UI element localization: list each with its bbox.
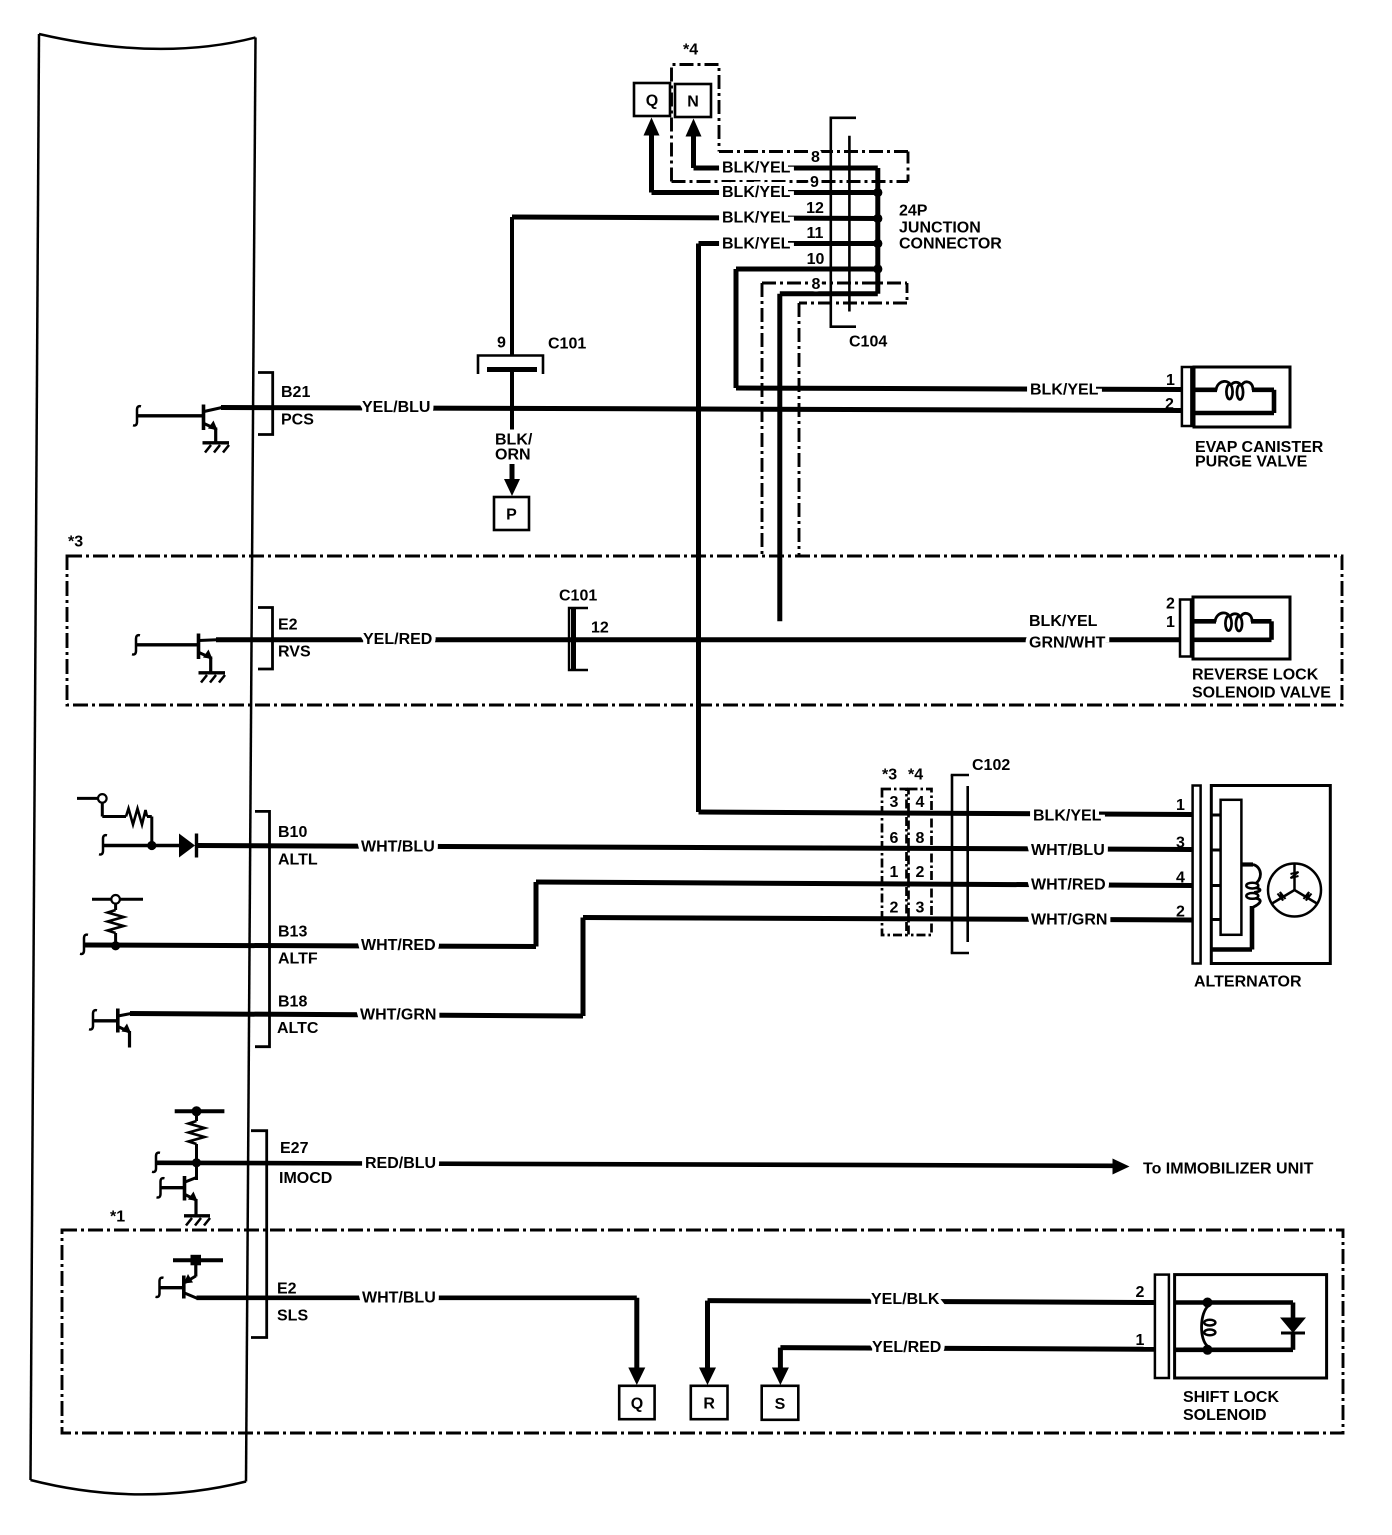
label B10 / ALTL <box>278 824 318 868</box>
connector bar at reverse lock valve <box>1180 600 1191 657</box>
wire BLK/YEL C104 pin 8 <box>694 166 878 171</box>
svg-text:E2: E2 <box>278 617 298 634</box>
svg-text:GRN/WHT: GRN/WHT <box>1029 634 1106 651</box>
svg-text:SOLENOID VALVE: SOLENOID VALVE <box>1192 685 1331 702</box>
svg-text:2: 2 <box>890 899 899 916</box>
pin bracket E27/E2 <box>251 1131 267 1338</box>
svg-text:WHT/BLU: WHT/BLU <box>361 839 435 856</box>
connector box P <box>494 497 529 530</box>
svg-text:Q: Q <box>631 1396 643 1413</box>
transistor Q1 (PCS driver) <box>133 405 222 443</box>
svg-text:24P: 24P <box>899 203 928 220</box>
label B21 / PCS <box>281 384 314 428</box>
svg-text:*1: *1 <box>110 1209 125 1226</box>
diode D1 (ALTL) <box>179 834 197 858</box>
connector C104 inner bar <box>848 136 851 312</box>
EVAP canister purge valve box <box>1194 367 1290 427</box>
svg-text:YEL/BLU: YEL/BLU <box>362 399 430 416</box>
svg-text:2: 2 <box>916 864 925 881</box>
junction dot C104 pin 11 <box>873 239 882 248</box>
label E27 / IMOCD <box>279 1140 332 1187</box>
svg-text:SHIFT LOCK: SHIFT LOCK <box>1183 1389 1279 1406</box>
wire bus at C104 <box>780 168 878 294</box>
label 24P JUNCTION CONNECTOR <box>899 203 1002 253</box>
label BLK/ORN <box>495 432 533 464</box>
wire YEL/BLK to R and shift lock pin 2 <box>699 1301 1155 1385</box>
connector bar at shift lock solenoid <box>1155 1275 1169 1378</box>
svg-text:3: 3 <box>916 899 925 916</box>
svg-text:Q: Q <box>646 92 658 109</box>
svg-text:*4: *4 <box>683 42 698 59</box>
diode D2 (shift lock flyback) <box>1280 1303 1306 1350</box>
svg-text:1: 1 <box>1136 1332 1145 1349</box>
pin bracket B10/B13/B18 <box>255 811 270 1046</box>
wire arrow to Q <box>644 118 660 193</box>
wire dash-dot C104 pin 9 (option) <box>672 180 909 183</box>
ground (RVS emitter) <box>199 673 226 683</box>
svg-text:SLS: SLS <box>277 1307 308 1324</box>
svg-text:YEL/BLK: YEL/BLK <box>871 1291 940 1308</box>
label REVERSE LOCK SOLENOID VALVE <box>1192 667 1331 702</box>
svg-text:WHT/BLU: WHT/BLU <box>362 1289 436 1306</box>
wire WHT/RED B13 to alternator pin 4 <box>85 882 1192 947</box>
ground (IMOCD emitter) <box>184 1216 210 1226</box>
wire RED/BLU E27 to immobilizer <box>152 1153 1114 1172</box>
svg-text:BLK/YEL: BLK/YEL <box>722 160 791 177</box>
svg-text:B10: B10 <box>278 824 307 841</box>
transistor Q4 (IMOCD driver) <box>157 1176 198 1215</box>
alternator stator (Y symbol) <box>1268 864 1321 917</box>
wire WHT/GRN B18 to alternator pin 2 <box>130 918 1192 1017</box>
dashed option box *3 pins <box>882 789 907 935</box>
svg-text:1: 1 <box>1176 797 1185 814</box>
svg-text:12: 12 <box>591 620 609 637</box>
resistor R1 (ALTL pull-up) <box>77 794 152 845</box>
transistor Q5 (SLS driver) <box>156 1255 224 1299</box>
svg-text:10: 10 <box>807 251 825 268</box>
svg-text:2: 2 <box>1166 596 1175 613</box>
option pin numbers col *4 <box>916 794 925 917</box>
svg-text:C101: C101 <box>559 588 597 605</box>
dashed option box *4 <box>672 65 720 182</box>
shift lock coil L4 <box>1175 1298 1293 1355</box>
svg-text:2: 2 <box>1136 1284 1145 1301</box>
svg-text:9: 9 <box>497 335 506 352</box>
shift lock solenoid box <box>1175 1275 1327 1378</box>
svg-text:8: 8 <box>812 276 821 293</box>
junction dot (ALTL) <box>147 841 156 850</box>
transistor Q3 (ALTC) <box>89 1009 131 1048</box>
reverse lock solenoid valve box <box>1193 597 1290 659</box>
svg-text:ALTERNATOR: ALTERNATOR <box>1194 974 1302 991</box>
wire C104 pin 10 <box>736 267 878 272</box>
wire dash-dot C104 pin 8 top (option) <box>719 150 908 153</box>
svg-text:ORN: ORN <box>495 447 531 464</box>
pin numbers at alternator <box>1176 797 1185 921</box>
svg-text:8: 8 <box>811 149 820 166</box>
wire dash-dot link pin8-pin9 right of C104 <box>907 152 910 182</box>
svg-text:WHT/BLU: WHT/BLU <box>1031 842 1105 859</box>
wire WHT/BLU SLS to Q <box>197 1298 646 1385</box>
wire BLK/YEL C104 pin 9 <box>652 190 878 195</box>
connector C102 inner bar <box>966 786 969 942</box>
svg-text:4: 4 <box>1176 870 1185 887</box>
connector C102 outer bar <box>951 775 969 953</box>
connector C104 outer bar <box>830 118 857 327</box>
wire YEL/RED - GRN/WHT from RVS to reverse lock valve pin 1 <box>216 637 1180 642</box>
label E2 / RVS <box>278 617 311 661</box>
dashed option box *1 <box>62 1230 1343 1433</box>
svg-text:2: 2 <box>1165 396 1174 413</box>
svg-text:ALTL: ALTL <box>278 851 318 868</box>
svg-text:ALTC: ALTC <box>277 1020 319 1037</box>
ground (PCS emitter) <box>203 443 230 453</box>
svg-text:SOLENOID: SOLENOID <box>1183 1407 1267 1424</box>
wire BLK/YEL bus down to reverse lock valve <box>777 294 782 622</box>
svg-text:BLK/YEL: BLK/YEL <box>722 184 791 201</box>
svg-text:PCS: PCS <box>281 412 314 429</box>
svg-text:3: 3 <box>890 794 899 811</box>
alternator connector bar <box>1193 786 1201 964</box>
svg-text:C104: C104 <box>849 334 887 351</box>
connector box Q (bottom) <box>619 1386 654 1419</box>
resistor R2 (ALTF pull-up) <box>92 895 143 946</box>
junction dot C104 pin 10 <box>873 264 882 273</box>
junction dot C104 pin 12 <box>873 214 882 223</box>
svg-text:To IMMOBILIZER UNIT: To IMMOBILIZER UNIT <box>1143 1161 1314 1178</box>
wire BLK/YEL from pin 10 to EVAP valve pin 1 <box>736 269 1181 390</box>
wire dash-dot C104 pin 8 bottom (option) <box>762 283 907 556</box>
wire arrow to N <box>686 119 702 169</box>
wire BLK/ORN below C101 <box>510 372 514 436</box>
junction dot (IMOCD) <box>192 1158 201 1167</box>
svg-text:9: 9 <box>810 174 819 191</box>
svg-text:IMOCD: IMOCD <box>279 1170 332 1187</box>
svg-text:*3: *3 <box>68 534 83 551</box>
svg-text:N: N <box>687 93 699 110</box>
svg-text:WHT/GRN: WHT/GRN <box>1031 912 1107 929</box>
svg-text:BLK/YEL: BLK/YEL <box>722 236 791 253</box>
option pin numbers col *3 <box>890 794 899 917</box>
svg-text:1: 1 <box>1166 372 1175 389</box>
svg-text:ALTF: ALTF <box>278 951 318 968</box>
svg-text:BLK/YEL: BLK/YEL <box>1029 613 1098 630</box>
svg-text:6: 6 <box>890 830 899 847</box>
svg-text:C102: C102 <box>972 757 1010 774</box>
alternator regulator bar <box>1221 800 1242 935</box>
svg-text:PURGE VALVE: PURGE VALVE <box>1195 454 1308 471</box>
svg-text:WHT/GRN: WHT/GRN <box>360 1007 436 1024</box>
solenoid coil L1 (reverse lock) <box>1193 613 1272 640</box>
wire arrow to P <box>504 464 520 496</box>
wire YEL/BLU from PCS to EVAP valve pin 2 <box>221 408 1181 411</box>
arrow to immobilizer unit <box>1113 1159 1130 1175</box>
pin B21 bracket <box>258 373 273 435</box>
svg-text:B13: B13 <box>278 924 307 941</box>
svg-text:3: 3 <box>1176 835 1185 852</box>
alternator pin stubs <box>1211 815 1220 920</box>
connector C101 (RVS, pin 12) <box>569 608 588 670</box>
svg-text:C101: C101 <box>548 336 586 353</box>
connector box R <box>691 1386 728 1419</box>
svg-text:E27: E27 <box>280 1140 309 1157</box>
connector box N <box>675 84 711 117</box>
svg-text:REVERSE LOCK: REVERSE LOCK <box>1192 667 1319 684</box>
solenoid coil L2 (EVAP) <box>1194 381 1274 413</box>
resistor R3 (IMOCD pull-up) <box>175 1106 225 1180</box>
svg-text:1: 1 <box>1166 614 1175 631</box>
label EVAP CANISTER PURGE VALVE <box>1195 439 1324 471</box>
dashed option box *4 pins <box>909 789 932 935</box>
EVAP: connector bar at EVAP valve <box>1182 367 1192 426</box>
svg-text:WHT/RED: WHT/RED <box>1031 876 1106 893</box>
junction dot C104 pin 9 <box>873 188 882 197</box>
pin E2 bracket (RVS) <box>258 608 273 670</box>
connector box Q <box>634 83 670 116</box>
label B13 / ALTF <box>278 924 318 968</box>
transistor Q2 (RVS driver) <box>132 634 217 673</box>
svg-text:12: 12 <box>806 200 824 217</box>
svg-text:CONNECTOR: CONNECTOR <box>899 236 1002 253</box>
wire BLK/YEL C104 pin 11 <box>699 241 878 246</box>
label E2 / SLS <box>277 1280 308 1324</box>
svg-text:E2: E2 <box>277 1280 297 1297</box>
svg-text:B18: B18 <box>278 993 307 1010</box>
svg-text:8: 8 <box>916 830 925 847</box>
svg-text:RED/BLU: RED/BLU <box>365 1155 436 1172</box>
svg-text:11: 11 <box>807 225 824 242</box>
wire BLK/YEL C104 pin11 to alternator pin 1 <box>696 244 701 813</box>
svg-text:YEL/RED: YEL/RED <box>872 1339 941 1356</box>
dashed option box *3 <box>67 556 1342 705</box>
svg-text:BLK/YEL: BLK/YEL <box>722 210 791 227</box>
alternator box <box>1211 786 1330 964</box>
connector C101 (top) <box>478 356 543 375</box>
svg-text:JUNCTION: JUNCTION <box>899 220 981 237</box>
wire ALTL input with tick <box>99 835 179 854</box>
alternator field coil L3 <box>1212 865 1260 950</box>
svg-text:YEL/RED: YEL/RED <box>363 631 432 648</box>
junction dot (ALTF) <box>111 941 120 950</box>
svg-text:R: R <box>703 1396 715 1413</box>
wire WHT/BLU B10 to alternator pin 3 <box>198 846 1192 850</box>
wire YEL/RED to S and shift lock pin 1 <box>772 1348 1155 1385</box>
svg-text:RVS: RVS <box>278 644 311 661</box>
control module outline (torn edges) <box>31 34 256 1494</box>
svg-text:S: S <box>775 1396 786 1413</box>
tick ALTF input <box>80 935 88 954</box>
svg-text:*4: *4 <box>908 767 923 784</box>
label B18 / ALTC <box>277 993 319 1037</box>
svg-text:BLK/YEL: BLK/YEL <box>1033 808 1102 825</box>
svg-text:B21: B21 <box>281 384 310 401</box>
label SHIFT LOCK SOLENOID <box>1183 1389 1279 1424</box>
wire BLK/YEL C104 pin 12 <box>512 217 878 355</box>
svg-text:1: 1 <box>890 864 899 881</box>
svg-text:4: 4 <box>916 794 925 811</box>
connector box S <box>762 1386 799 1420</box>
svg-text:P: P <box>506 506 517 523</box>
svg-text:WHT/RED: WHT/RED <box>361 937 436 954</box>
svg-text:*3: *3 <box>882 767 897 784</box>
svg-text:2: 2 <box>1176 904 1185 921</box>
svg-text:BLK/YEL: BLK/YEL <box>1030 382 1099 399</box>
